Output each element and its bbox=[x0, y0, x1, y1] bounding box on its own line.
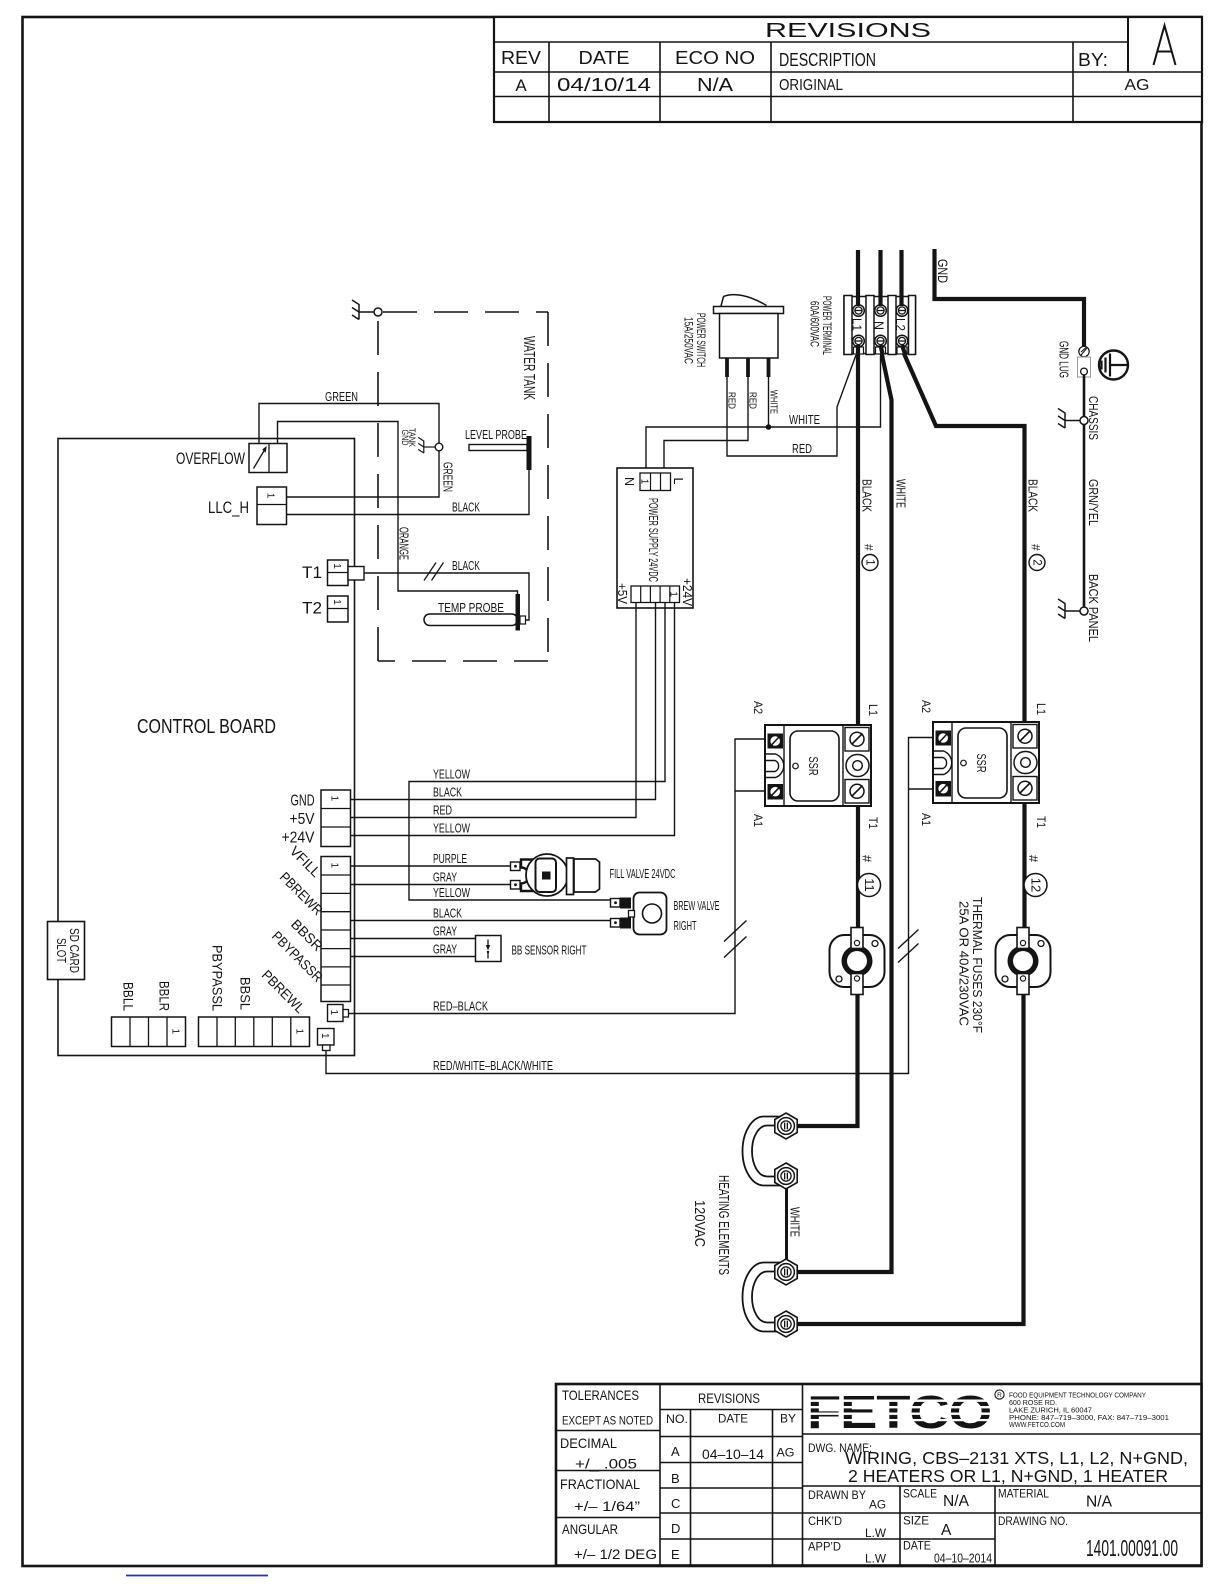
BBLL BBLR connector block bbox=[112, 981, 186, 1047]
svg-text:1: 1 bbox=[331, 599, 342, 605]
svg-text:1: 1 bbox=[329, 796, 340, 802]
svg-text:C: C bbox=[671, 1496, 680, 1511]
wire RED-BLACK to SSR1 control bbox=[349, 739, 766, 1014]
svg-text:DRAWN BY: DRAWN BY bbox=[808, 1490, 866, 1502]
svg-text:L2: L2 bbox=[893, 318, 907, 331]
wire BLACK to brew valve bbox=[351, 906, 611, 921]
svg-text:12: 12 bbox=[1028, 878, 1043, 892]
svg-text:BBSL: BBSL bbox=[238, 977, 254, 1010]
svg-text:N/A: N/A bbox=[1086, 1494, 1113, 1511]
svg-text:BACK PANEL: BACK PANEL bbox=[1086, 574, 1101, 642]
wire GRN/YEL chassis to back panel bbox=[1084, 425, 1101, 608]
heating element terminals bbox=[775, 1113, 797, 1139]
SD card slot bbox=[48, 922, 85, 980]
svg-text:BLACK: BLACK bbox=[860, 479, 875, 512]
svg-text:BLACK: BLACK bbox=[1026, 479, 1041, 512]
svg-text:1: 1 bbox=[329, 863, 340, 869]
svg-text:#: # bbox=[1026, 855, 1041, 863]
svg-text:T1: T1 bbox=[1034, 816, 1048, 828]
svg-text:WHITE: WHITE bbox=[789, 412, 820, 427]
svg-text:BY: BY bbox=[780, 1414, 796, 1426]
power terminal block bbox=[844, 296, 916, 355]
svg-text:L.W: L.W bbox=[865, 1528, 886, 1540]
svg-text:A: A bbox=[941, 1522, 952, 1539]
svg-text:ORIGINAL: ORIGINAL bbox=[779, 77, 843, 94]
svg-text:D: D bbox=[671, 1521, 680, 1536]
company info text bbox=[1009, 1391, 1169, 1430]
svg-text:RED: RED bbox=[792, 441, 812, 456]
wire YELLOW ps to brew valve bbox=[409, 603, 665, 901]
svg-text:04–10–2014: 04–10–2014 bbox=[934, 1552, 992, 1566]
svg-text:1: 1 bbox=[265, 493, 276, 499]
svg-text:+5V: +5V bbox=[290, 811, 316, 828]
svg-text:BLACK: BLACK bbox=[433, 906, 462, 921]
svg-text:LLC_H: LLC_H bbox=[208, 498, 249, 517]
svg-text:WIRING, CBS–2131 XTS, L1,: WIRING, CBS–2131 XTS, L1, L2, N+GND, bbox=[845, 1448, 1188, 1468]
wire RED switch pin1 to L1 terminal bbox=[726, 355, 857, 456]
svg-text:GRAY: GRAY bbox=[433, 870, 457, 885]
svg-text:+/– 1/2 DEG: +/– 1/2 DEG bbox=[574, 1546, 657, 1562]
svg-text:R: R bbox=[997, 1392, 1002, 1399]
svg-text:A: A bbox=[671, 1444, 680, 1459]
svg-text:DESCRIPTION: DESCRIPTION bbox=[779, 50, 876, 70]
wire GRAY to bb sensor bbox=[351, 924, 476, 939]
svg-text:POWER SWITCH15A/250VAC: POWER SWITCH15A/250VAC bbox=[682, 313, 707, 367]
svg-text:WHITE: WHITE bbox=[894, 479, 909, 508]
svg-text:POWER TERMINAL60A/600VAC: POWER TERMINAL60A/600VAC bbox=[808, 296, 833, 355]
T1 connector bbox=[302, 560, 364, 586]
svg-text:1: 1 bbox=[639, 479, 650, 485]
svg-text:TANKGND: TANKGND bbox=[400, 428, 417, 447]
level probe bbox=[465, 427, 532, 470]
FETCO logo bbox=[806, 1386, 1004, 1438]
svg-text:FRACTIONAL: FRACTIONAL bbox=[560, 1476, 640, 1492]
svg-text:NO.: NO. bbox=[666, 1414, 688, 1426]
svg-text:+24V: +24V bbox=[680, 578, 694, 607]
svg-text:1: 1 bbox=[863, 559, 875, 565]
wire GRAY 2 to bb sensor bbox=[351, 942, 476, 957]
svg-text:SIZE: SIZE bbox=[903, 1516, 929, 1528]
svg-text:DATE: DATE bbox=[718, 1414, 748, 1426]
svg-text:L1: L1 bbox=[1034, 703, 1048, 715]
heating element 2 tube bbox=[743, 1263, 786, 1332]
svg-text:PURPLE: PURPLE bbox=[433, 851, 467, 866]
svg-text:YELLOW: YELLOW bbox=[433, 821, 470, 836]
svg-text:A1: A1 bbox=[751, 814, 765, 827]
blue underline artifact bbox=[126, 1575, 268, 1577]
title block bbox=[556, 1384, 1202, 1566]
label BLACK #1 bus bbox=[860, 479, 879, 571]
svg-text:1: 1 bbox=[319, 1033, 330, 1039]
thermal fuse F1 bbox=[830, 928, 885, 995]
svg-text:BY:: BY: bbox=[1078, 50, 1108, 70]
svg-text:TEMP PROBE: TEMP PROBE bbox=[438, 600, 504, 615]
svg-text:2 HEATERS OR L1, N+GND, 1: 2 HEATERS OR L1, N+GND, 1 HEATER bbox=[848, 1466, 1168, 1486]
svg-text:DECIMAL: DECIMAL bbox=[560, 1435, 617, 1451]
svg-text:1401.00091.00: 1401.00091.00 bbox=[1086, 1535, 1178, 1561]
svg-text:TOLERANCES: TOLERANCES bbox=[562, 1387, 639, 1403]
dwg name bbox=[808, 1443, 1188, 1486]
svg-text:WWW.FETCO.COM: WWW.FETCO.COM bbox=[1009, 1420, 1065, 1429]
svg-text:N: N bbox=[622, 477, 636, 486]
svg-text:DATE: DATE bbox=[579, 48, 630, 68]
svg-text:L1: L1 bbox=[850, 318, 864, 331]
svg-text:GREEN: GREEN bbox=[325, 389, 358, 404]
fill valve 24VDC bbox=[511, 854, 676, 896]
svg-text:RED: RED bbox=[726, 392, 738, 409]
earth ground in circle symbol bbox=[1099, 351, 1128, 380]
svg-text:#: # bbox=[862, 544, 876, 551]
svg-text:BLACK: BLACK bbox=[433, 785, 462, 800]
svg-text:GRAY: GRAY bbox=[433, 942, 457, 957]
wire RED/WHITE-BLACK/WHITE to SSR2 control bbox=[326, 738, 933, 1074]
wire WHITE element jumper bbox=[787, 1176, 803, 1272]
svg-text:E: E bbox=[671, 1547, 680, 1562]
svg-text:BBLR: BBLR bbox=[157, 981, 173, 1011]
svg-text:+/_ .005: +/_ .005 bbox=[575, 1456, 637, 1472]
svg-text:BB SENSOR RIGHT: BB SENSOR RIGHT bbox=[512, 943, 587, 958]
svg-text:CHASSIS: CHASSIS bbox=[1086, 396, 1101, 440]
svg-text:N: N bbox=[872, 321, 886, 330]
wire BLACK level probe to LLC_H bbox=[287, 470, 530, 515]
svg-text:ORANGE: ORANGE bbox=[397, 527, 412, 560]
wire GRAY to fill valve bbox=[351, 870, 511, 885]
svg-text:APP’D: APP’D bbox=[808, 1542, 841, 1554]
label #12 bbox=[1024, 855, 1047, 897]
svg-text:RED: RED bbox=[747, 392, 759, 409]
diagonal port labels bbox=[259, 843, 326, 1017]
svg-text:YELLOW: YELLOW bbox=[433, 885, 470, 900]
svg-text:L: L bbox=[671, 478, 685, 485]
back panel ground node bbox=[1058, 574, 1101, 642]
svg-text:MATERIAL: MATERIAL bbox=[998, 1489, 1050, 1501]
revisions table bbox=[494, 17, 1202, 122]
svg-text:RED–BLACK: RED–BLACK bbox=[433, 999, 488, 1014]
svg-text:EXCEPT AS NOTED: EXCEPT AS NOTED bbox=[562, 1416, 653, 1428]
svg-text:AG: AG bbox=[869, 1500, 886, 1512]
svg-text:DRAWING NO.: DRAWING NO. bbox=[998, 1516, 1068, 1528]
wire GND supply bbox=[935, 249, 1085, 347]
svg-text:REVISIONS: REVISIONS bbox=[765, 20, 931, 42]
wire RED switch pin2 to power supply L bbox=[664, 377, 759, 468]
svg-text:GND: GND bbox=[935, 259, 950, 283]
svg-text:WHITE: WHITE bbox=[768, 390, 780, 414]
svg-text:A2: A2 bbox=[919, 700, 933, 713]
control board outline bbox=[58, 439, 355, 1056]
svg-text:N/A: N/A bbox=[943, 1493, 970, 1510]
svg-text:LEVEL PROBE: LEVEL PROBE bbox=[465, 427, 527, 442]
svg-text:2: 2 bbox=[1030, 559, 1042, 565]
svg-text:WATER TANK: WATER TANK bbox=[520, 336, 537, 400]
wire WHITE switch pin3 / N terminal / power supply N bbox=[646, 356, 881, 468]
wire YELLOW +24V bbox=[351, 603, 675, 836]
wire L2 supply black #2 bus bbox=[790, 250, 1025, 1324]
svg-text:L.W: L.W bbox=[865, 1554, 886, 1566]
wire N supply white bus bbox=[790, 250, 892, 1272]
SSR U1 bbox=[751, 701, 880, 829]
svg-text:YELLOW: YELLOW bbox=[433, 767, 470, 782]
wire ORANGE overflow to temp probe bbox=[278, 422, 518, 596]
svg-text:REV: REV bbox=[501, 48, 541, 68]
wire L1 supply black #1 bus bbox=[790, 250, 858, 1126]
svg-text:04–10–14: 04–10–14 bbox=[702, 1446, 764, 1462]
svg-text:FETCO: FETCO bbox=[807, 1386, 991, 1438]
svg-text:GREEN: GREEN bbox=[441, 462, 456, 492]
svg-text:WHITE: WHITE bbox=[788, 1207, 803, 1237]
svg-text:AG: AG bbox=[1125, 77, 1150, 94]
svg-text:SCALE: SCALE bbox=[903, 1489, 937, 1501]
svg-text:REVISIONS: REVISIONS bbox=[698, 1391, 760, 1406]
wire BLACK T1 to temp probe bbox=[364, 558, 529, 620]
svg-text:A1: A1 bbox=[919, 813, 933, 826]
svg-text:CHK’D: CHK’D bbox=[808, 1516, 842, 1528]
svg-text:PBYPASSL: PBYPASSL bbox=[210, 945, 226, 1011]
svg-text:ECO NO: ECO NO bbox=[675, 48, 755, 68]
water tank corner ground node bbox=[352, 300, 382, 320]
svg-text:GND: GND bbox=[291, 793, 315, 810]
svg-text:+5V: +5V bbox=[615, 583, 629, 605]
water tank dashed box bbox=[378, 312, 548, 661]
svg-text:T1: T1 bbox=[302, 563, 322, 582]
svg-text:OVERFLOW: OVERFLOW bbox=[176, 449, 245, 468]
svg-text:A2: A2 bbox=[751, 701, 765, 714]
svg-text:T2: T2 bbox=[302, 599, 322, 618]
power switch bbox=[682, 295, 784, 377]
chassis ground node bbox=[1058, 396, 1101, 440]
svg-text:THERMAL FUSES 230°F25A OR: THERMAL FUSES 230°F25A OR 40A/230VAC bbox=[957, 897, 986, 1033]
svg-text:11: 11 bbox=[862, 878, 877, 892]
svg-text:BLACK: BLACK bbox=[452, 558, 480, 573]
wire GREEN overflow to tank gnd bbox=[259, 389, 439, 444]
VFILL connector block bbox=[321, 857, 351, 1002]
svg-text:DATE: DATE bbox=[903, 1541, 931, 1553]
T2 connector bbox=[302, 596, 348, 622]
label BLACK #2 bus bbox=[1026, 479, 1046, 571]
svg-text:RED/WHITE–BLACK/WHITE: RED/WHITE–BLACK/WHITE bbox=[433, 1058, 553, 1073]
svg-text:L1: L1 bbox=[866, 704, 880, 716]
PBYPASSL BBSL connector block bbox=[199, 945, 310, 1047]
svg-text:#: # bbox=[1029, 544, 1043, 551]
heating element 1 tube bbox=[743, 1117, 786, 1186]
svg-text:T1: T1 bbox=[866, 817, 880, 829]
overflow connector bbox=[176, 444, 287, 473]
SSR U2 bbox=[919, 700, 1048, 828]
svg-text:CONTROL BOARD: CONTROL BOARD bbox=[137, 716, 276, 738]
svg-text:GRAY: GRAY bbox=[433, 924, 457, 939]
svg-text:04/10/14: 04/10/14 bbox=[557, 75, 651, 95]
svg-text:1: 1 bbox=[668, 591, 679, 597]
svg-text:GND LUG: GND LUG bbox=[1057, 341, 1071, 378]
svg-text:1: 1 bbox=[328, 1010, 339, 1016]
svg-text:FILL VALVE 24VDC: FILL VALVE 24VDC bbox=[610, 866, 676, 881]
wire PURPLE to fill valve bbox=[351, 851, 511, 866]
thermal fuse F2 bbox=[996, 928, 1051, 995]
LLC_H connector bbox=[208, 487, 287, 525]
svg-text:ANGULAR: ANGULAR bbox=[562, 1521, 618, 1537]
brew valve right bbox=[611, 893, 720, 935]
tank gnd node bbox=[400, 428, 443, 453]
RW-BW connector bbox=[318, 1029, 335, 1051]
RED-BLACK connector bbox=[328, 1005, 349, 1022]
svg-text:POWER SUPPLY 24VDC: POWER SUPPLY 24VDC bbox=[646, 498, 660, 582]
wire BLACK GND bbox=[351, 603, 656, 800]
svg-text:BBLL: BBLL bbox=[121, 982, 137, 1011]
temp probe bbox=[424, 594, 526, 631]
svg-text:RED: RED bbox=[433, 803, 452, 818]
GND +5V +24V connector block bbox=[282, 790, 351, 847]
svg-text:GRN/YEL: GRN/YEL bbox=[1086, 479, 1101, 526]
svg-text:1: 1 bbox=[293, 1029, 304, 1035]
svg-text:A: A bbox=[515, 76, 527, 95]
svg-text:BLACK: BLACK bbox=[452, 500, 480, 515]
wire GREEN tank gnd to LLC_H bbox=[287, 451, 456, 497]
wire labels yellow black red yellow bbox=[433, 767, 470, 836]
svg-text:AG: AG bbox=[777, 1448, 795, 1460]
wire RED +5V bbox=[351, 603, 637, 818]
svg-text:#: # bbox=[860, 855, 875, 863]
svg-text:N/A: N/A bbox=[697, 75, 733, 95]
gnd lug bbox=[1057, 341, 1091, 378]
svg-text:1: 1 bbox=[170, 1029, 181, 1035]
svg-text:+/– 1/64”: +/– 1/64” bbox=[574, 1498, 640, 1514]
svg-text:1: 1 bbox=[331, 563, 342, 569]
power supply 24VDC bbox=[615, 468, 694, 608]
label #11 bbox=[858, 855, 881, 897]
BB sensor right bbox=[476, 936, 587, 962]
title block fields bbox=[808, 1489, 1178, 1566]
wire gnd lug to chassis node bbox=[1083, 375, 1086, 417]
svg-text:B: B bbox=[671, 1471, 680, 1486]
